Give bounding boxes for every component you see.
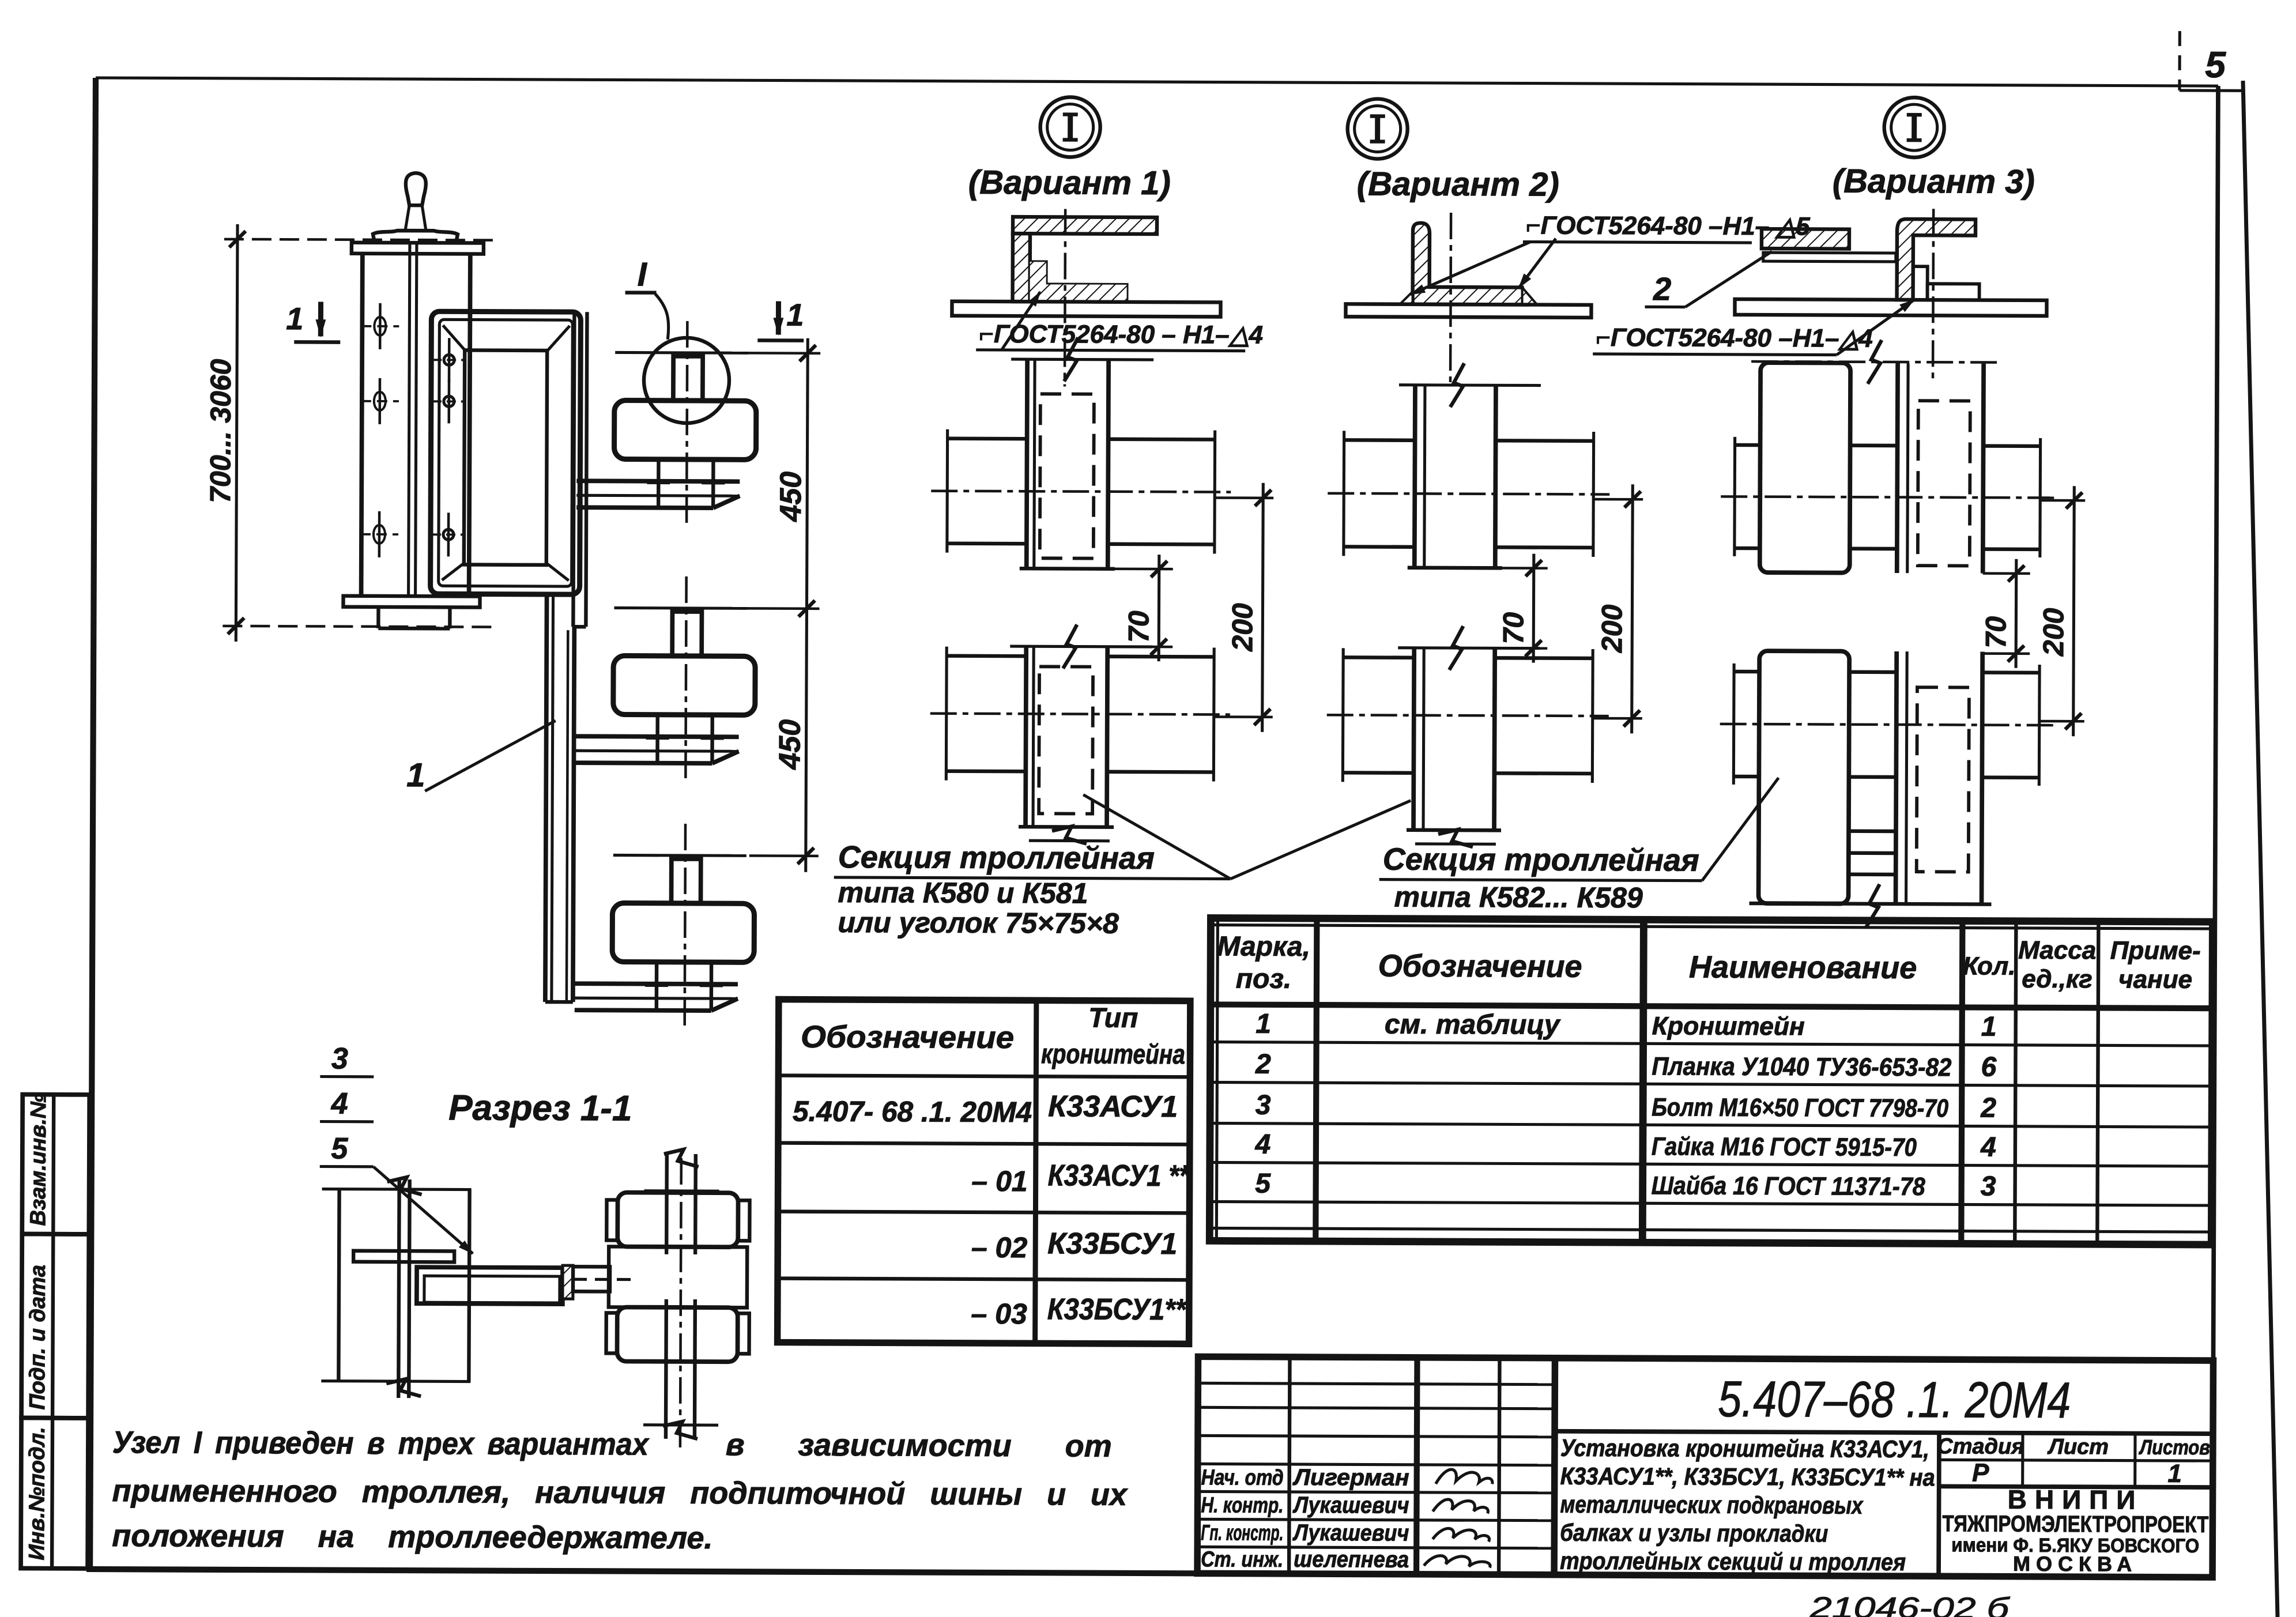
svg-text:К33БСУ1: К33БСУ1 — [1047, 1227, 1177, 1261]
svg-text:700... 3060: 700... 3060 — [204, 359, 237, 503]
svg-text:см. таблицу: см. таблицу — [1385, 1009, 1561, 1041]
svg-text:металлических подкрановых: металлических подкрановых — [1560, 1491, 1864, 1519]
svg-text:Кол.: Кол. — [1963, 952, 2016, 980]
svg-text:⌐ГОСТ5264-80 – Н1–△4: ⌐ГОСТ5264-80 – Н1–△4 — [979, 320, 1263, 349]
svg-text:1: 1 — [286, 301, 303, 336]
svg-text:70: 70 — [1497, 612, 1529, 644]
svg-text:⌐ГОСТ5264-80 –Н1–△4: ⌐ГОСТ5264-80 –Н1–△4 — [1596, 323, 1873, 353]
svg-text:Узел I приведен в трех вариант: Узел I приведен в трех вариантах — [112, 1425, 650, 1462]
svg-text:(Вариант 1): (Вариант 1) — [968, 164, 1171, 202]
svg-text:Листов: Листов — [2138, 1435, 2210, 1459]
svg-text:1: 1 — [1981, 1012, 1997, 1042]
svg-text:Ст. инж.: Ст. инж. — [1201, 1547, 1283, 1572]
svg-text:5: 5 — [2205, 44, 2226, 85]
svg-text:200: 200 — [1596, 604, 1628, 653]
svg-text:Лигерман: Лигерман — [1292, 1465, 1409, 1491]
svg-text:200: 200 — [2037, 608, 2069, 657]
svg-text:поз.: поз. — [1236, 964, 1292, 994]
svg-text:или уголок 75×75×8: или уголок 75×75×8 — [838, 906, 1119, 940]
svg-text:70: 70 — [1980, 616, 2012, 649]
svg-text:Обозначение: Обозначение — [801, 1020, 1014, 1055]
svg-text:200: 200 — [1226, 603, 1258, 652]
svg-text:I: I — [638, 256, 648, 293]
svg-text:– 01: – 01 — [971, 1165, 1028, 1197]
svg-text:Разрез 1-1: Разрез 1-1 — [448, 1088, 632, 1128]
svg-text:Секция троллейная: Секция троллейная — [838, 840, 1155, 876]
svg-text:чание: чание — [2118, 965, 2192, 993]
svg-text:Секция троллейная: Секция троллейная — [1383, 842, 1699, 878]
svg-text:Масса: Масса — [2018, 936, 2096, 965]
svg-text:К33АСУ1**, К33БСУ1, К33БСУ1**: К33АСУ1**, К33БСУ1, К33БСУ1** на — [1560, 1463, 1935, 1491]
svg-text:1: 1 — [786, 298, 804, 333]
svg-text:4: 4 — [1980, 1132, 1996, 1163]
svg-text:Гайка М16 ГОСТ 5915-70: Гайка М16 ГОСТ 5915-70 — [1652, 1132, 1917, 1162]
svg-text:Марка,: Марка, — [1217, 931, 1310, 962]
svg-text:МОСКВА: МОСКВА — [2013, 1552, 2137, 1576]
svg-text:450: 450 — [773, 719, 806, 770]
svg-text:Тип: Тип — [1088, 1003, 1138, 1034]
svg-text:5.407- 68 .1. 20М4: 5.407- 68 .1. 20М4 — [793, 1095, 1032, 1129]
svg-text:Болт М16×50 ГОСТ 7798-70: Болт М16×50 ГОСТ 7798-70 — [1652, 1093, 1949, 1122]
svg-text:Лист: Лист — [2047, 1435, 2109, 1459]
svg-text:Приме-: Приме- — [2110, 936, 2201, 965]
svg-text:⌐ГОСТ5264-80 –Н1– △5: ⌐ГОСТ5264-80 –Н1– △5 — [1526, 212, 1810, 241]
svg-text:балках и узлы прокладки: балках и узлы прокладки — [1560, 1519, 1828, 1547]
svg-text:2: 2 — [1255, 1049, 1271, 1080]
svg-text:2: 2 — [1653, 270, 1671, 307]
svg-text:Гп. констр.: Гп. констр. — [1201, 1521, 1283, 1546]
svg-text:Р: Р — [1972, 1459, 1989, 1487]
svg-text:Планка У1040 ТУ36-653-82: Планка У1040 ТУ36-653-82 — [1652, 1052, 1952, 1081]
svg-text:типа К582... К589: типа К582... К589 — [1394, 881, 1643, 914]
svg-text:Н. контр.: Н. контр. — [1201, 1493, 1283, 1518]
svg-text:кронштейна: кронштейна — [1041, 1039, 1185, 1070]
svg-text:4: 4 — [331, 1087, 348, 1121]
svg-text:3: 3 — [1256, 1090, 1271, 1121]
svg-text:5.407–68 .1. 20М4: 5.407–68 .1. 20М4 — [1718, 1370, 2071, 1428]
svg-text:3: 3 — [331, 1042, 348, 1076]
svg-text:Стадия: Стадия — [1937, 1434, 2024, 1459]
svg-text:шелепнева: шелепнева — [1294, 1547, 1409, 1573]
svg-text:К33АСУ1: К33АСУ1 — [1048, 1090, 1178, 1124]
svg-text:– 02: – 02 — [971, 1231, 1028, 1264]
svg-text:Шайба 16 ГОСТ 11371-78: Шайба 16 ГОСТ 11371-78 — [1652, 1171, 1926, 1201]
svg-text:примененного троллея, наличия: примененного троллея, наличия подпиточно… — [112, 1473, 1128, 1512]
svg-text:Обозначение: Обозначение — [1378, 949, 1582, 984]
svg-text:ВНИПИ: ВНИПИ — [2008, 1484, 2144, 1515]
svg-text:1: 1 — [2167, 1460, 2182, 1488]
svg-text:Лукашевич: Лукашевич — [1292, 1492, 1409, 1518]
svg-text:2: 2 — [1980, 1093, 1996, 1124]
svg-text:4: 4 — [1254, 1129, 1270, 1160]
svg-text:типа К580 и К581: типа К580 и К581 — [838, 876, 1088, 910]
svg-text:1: 1 — [406, 756, 425, 794]
svg-text:Нач. отд: Нач. отд — [1201, 1465, 1284, 1490]
svg-text:ТЯЖПРОМЭЛЕКТРОПРОЕКТ: ТЯЖПРОМЭЛЕКТРОПРОЕКТ — [1942, 1511, 2208, 1537]
svg-text:троллейных секций и троллея: троллейных секций и троллея — [1560, 1547, 1906, 1575]
svg-text:6: 6 — [1981, 1052, 1996, 1083]
svg-text:– 03: – 03 — [971, 1298, 1027, 1330]
svg-text:Лукашевич: Лукашевич — [1292, 1520, 1409, 1546]
svg-text:К33БСУ1**: К33БСУ1** — [1047, 1292, 1187, 1326]
svg-text:5: 5 — [1255, 1169, 1271, 1199]
svg-text:70: 70 — [1122, 610, 1155, 643]
svg-text:Кронштейн: Кронштейн — [1652, 1012, 1805, 1041]
svg-text:21046-02 б: 21046-02 б — [1809, 1591, 2010, 1617]
svg-text:положения на троллеедержателе.: положения на троллеедержателе. — [112, 1518, 712, 1555]
svg-text:(Вариант 2): (Вариант 2) — [1357, 165, 1559, 203]
svg-text:1: 1 — [1256, 1009, 1271, 1039]
svg-text:3: 3 — [1981, 1171, 1996, 1202]
svg-text:(Вариант 3): (Вариант 3) — [1833, 163, 2035, 201]
svg-text:ед.,кг: ед.,кг — [2022, 965, 2093, 993]
svg-text:450: 450 — [774, 472, 808, 522]
svg-text:5: 5 — [331, 1132, 348, 1166]
svg-text:Наименование: Наименование — [1689, 950, 1917, 986]
svg-text:Подп. и дата: Подп. и дата — [25, 1265, 50, 1410]
svg-text:Установка кронштейна К33АСУ1,: Установка кронштейна К33АСУ1, — [1560, 1434, 1929, 1463]
svg-text:Инв.№подл.: Инв.№подл. — [25, 1427, 50, 1561]
svg-text:Взам.инв.№: Взам.инв.№ — [26, 1094, 51, 1226]
svg-text:в зависимости от: в зависимости от — [726, 1427, 1112, 1464]
svg-text:К33АСУ1 **: К33АСУ1 ** — [1048, 1159, 1191, 1193]
